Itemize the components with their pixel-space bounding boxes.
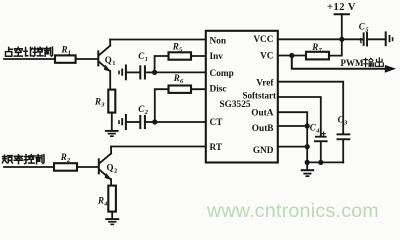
svg-text:1: 1 bbox=[145, 56, 148, 63]
控 bbox=[33, 47, 43, 56]
wire input duty-cycle to R1 bbox=[4, 58, 55, 60]
ground (sideways) right of C5 bbox=[386, 32, 393, 45]
出 bbox=[375, 58, 383, 67]
svg-text:SG3525: SG3525 bbox=[220, 100, 251, 110]
wire R1 to Q1 base bbox=[76, 58, 98, 60]
label C1 bbox=[138, 51, 148, 63]
label 占空比控制 (duty cycle control) bbox=[6, 47, 53, 56]
svg-text:1: 1 bbox=[112, 60, 115, 67]
+12V supply bar bbox=[335, 13, 349, 15]
wire VCC to +12V node and C5 bbox=[278, 38, 363, 40]
svg-text:R: R bbox=[97, 196, 104, 206]
svg-text:2: 2 bbox=[114, 168, 117, 175]
resistor R3 bbox=[108, 90, 115, 113]
svg-text:PWM: PWM bbox=[341, 58, 364, 68]
wire PWM output bbox=[292, 56, 387, 69]
label Q1 bbox=[105, 55, 116, 67]
wire R4 to ground bbox=[111, 212, 113, 219]
label C2 bbox=[138, 104, 149, 116]
svg-text:Vref: Vref bbox=[256, 79, 274, 89]
capacitor C3 bbox=[337, 133, 351, 162]
wire junction to CT pin bbox=[155, 121, 206, 123]
label R4 bbox=[97, 196, 108, 208]
svg-text:RT: RT bbox=[210, 143, 223, 153]
capacitor C4 (polarized) bbox=[314, 132, 328, 162]
capacitor C1 bbox=[139, 65, 154, 79]
wire Softstart to C4 bbox=[278, 97, 321, 136]
wire junction to Comp pin bbox=[155, 71, 206, 73]
node +12V/VCC bbox=[339, 37, 344, 42]
svg-text:R: R bbox=[94, 97, 101, 107]
svg-text:VCC: VCC bbox=[253, 35, 273, 45]
label 频率控制 (frequency control) bbox=[2, 155, 44, 164]
label R5 bbox=[172, 42, 183, 54]
label R2 bbox=[60, 152, 71, 164]
svg-text:R: R bbox=[311, 42, 318, 52]
wire junction up to R5 bbox=[155, 56, 169, 72]
wire R6 to Disc pin bbox=[191, 88, 206, 90]
ground under R4 bbox=[106, 219, 118, 224]
resistor R4 bbox=[108, 186, 116, 212]
控 bbox=[25, 155, 35, 164]
svg-text:Non: Non bbox=[210, 36, 227, 46]
wire C5 to sideways ground bbox=[368, 38, 385, 40]
svg-text:Q: Q bbox=[107, 163, 114, 173]
capacitor C2 bbox=[139, 115, 155, 129]
制 bbox=[44, 47, 52, 56]
svg-text:4: 4 bbox=[315, 128, 320, 135]
svg-text:Disc: Disc bbox=[210, 85, 227, 95]
wire OutB bbox=[278, 125, 307, 127]
wire junction up to R6 bbox=[155, 89, 169, 122]
node: C2/R6/CT junction bbox=[152, 119, 157, 124]
svg-text:R: R bbox=[61, 44, 68, 54]
label R6 bbox=[173, 73, 184, 85]
svg-text:R: R bbox=[60, 152, 67, 162]
svg-text:GND: GND bbox=[253, 146, 274, 156]
wire Q1 collector to Non pin bbox=[110, 39, 206, 41]
svg-text:OutB: OutB bbox=[252, 124, 274, 134]
op-amp chip SG3525 body bbox=[206, 31, 278, 163]
node C4 bottom bbox=[318, 160, 323, 165]
label Q2 bbox=[107, 163, 118, 175]
wire VC to R7 bbox=[278, 55, 306, 57]
制 bbox=[36, 155, 44, 164]
ground (sideways) left of C1 bbox=[119, 66, 126, 80]
wire R3 to ground bbox=[111, 113, 113, 131]
wire input frequency to R2 bbox=[4, 166, 54, 168]
频 bbox=[2, 155, 12, 163]
svg-text:Q: Q bbox=[105, 55, 112, 65]
svg-text:3: 3 bbox=[100, 102, 105, 109]
svg-text:CT: CT bbox=[210, 118, 224, 128]
wire Q2 collector to RT pin bbox=[111, 146, 206, 148]
比 bbox=[24, 47, 33, 56]
resistor R6 bbox=[169, 86, 192, 93]
label R1 bbox=[61, 44, 71, 56]
wire Vref to C3 bbox=[278, 82, 343, 134]
输 bbox=[364, 58, 373, 66]
svg-text:1: 1 bbox=[68, 49, 71, 56]
svg-text:3: 3 bbox=[343, 120, 348, 127]
占 bbox=[6, 47, 13, 56]
node GND bbox=[305, 144, 310, 149]
resistor R2 bbox=[54, 163, 77, 171]
node: C1/R5/Comp junction bbox=[152, 70, 157, 75]
svg-text:R: R bbox=[172, 42, 179, 52]
label C4 bbox=[310, 123, 321, 135]
svg-text:OutA: OutA bbox=[251, 109, 273, 119]
label R3 bbox=[94, 97, 105, 109]
wire GND bbox=[278, 146, 307, 148]
svg-text:R: R bbox=[173, 73, 180, 83]
wire R5 to Inv pin bbox=[191, 55, 206, 57]
率 bbox=[14, 155, 23, 164]
resistor R7 bbox=[306, 52, 329, 60]
capacitor C5 bbox=[360, 32, 368, 47]
ground under R3 bbox=[106, 131, 118, 136]
svg-text:4: 4 bbox=[103, 201, 108, 208]
node OutB bbox=[305, 123, 310, 128]
wire OutA down bbox=[278, 112, 307, 162]
svg-text:VC: VC bbox=[260, 51, 273, 61]
resistor R1 bbox=[55, 55, 76, 62]
svg-text:2: 2 bbox=[144, 109, 149, 116]
node bottom-left bbox=[305, 160, 310, 165]
svg-text:Softstart: Softstart bbox=[243, 90, 277, 100]
wire to main ground bbox=[306, 162, 308, 169]
wire R2 to Q2 base bbox=[77, 166, 98, 168]
resistor R5 bbox=[169, 52, 192, 59]
wire R7 to +12V rail bbox=[329, 39, 342, 55]
label C3 bbox=[338, 115, 349, 127]
svg-text:2: 2 bbox=[66, 157, 71, 164]
wire ground to C2 bbox=[127, 121, 140, 123]
transistor Q2 bbox=[98, 147, 112, 186]
label C5 bbox=[359, 22, 370, 34]
PWM arrowhead bbox=[385, 65, 396, 73]
svg-text:+12 V: +12 V bbox=[327, 2, 356, 13]
label R7 bbox=[311, 42, 322, 54]
transistor Q1 bbox=[97, 40, 111, 90]
svg-text:Inv: Inv bbox=[210, 52, 224, 62]
wire ground to C1 bbox=[127, 71, 140, 73]
ground main bbox=[302, 170, 314, 176]
空 bbox=[14, 47, 22, 56]
node VC/PWM bbox=[289, 53, 294, 58]
ground (sideways) left of C2 bbox=[119, 115, 126, 129]
bottom common wire bbox=[307, 161, 343, 163]
svg-text:Comp: Comp bbox=[210, 69, 234, 79]
svg-text:www.cntronics.com: www.cntronics.com bbox=[206, 200, 379, 222]
